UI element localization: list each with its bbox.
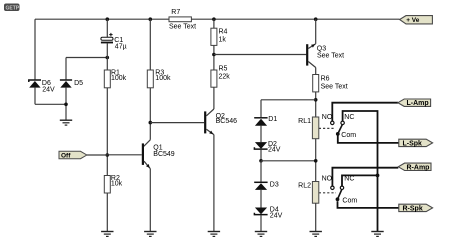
diode D5 <box>60 58 83 120</box>
svg-text:NC: NC <box>344 114 354 121</box>
svg-text:47µ: 47µ <box>115 43 127 50</box>
svg-text:R-Spk: R-Spk <box>403 205 423 212</box>
resistor R2 10k <box>104 175 122 193</box>
diode D1 <box>254 116 277 142</box>
svg-text:GETP: GETP <box>6 6 20 12</box>
node NC bus junction <box>376 174 380 178</box>
node rail-C1 <box>106 17 110 21</box>
resistor R7 See Text <box>169 9 196 31</box>
contact NO2 <box>322 175 334 189</box>
svg-text:100k: 100k <box>111 75 127 82</box>
resistor R3 100k <box>147 70 171 88</box>
svg-text:RL1: RL1 <box>298 118 311 125</box>
flag +Ve <box>400 16 433 24</box>
wire left edge down to D6 <box>34 19 36 79</box>
svg-text:See Text: See Text <box>169 23 196 30</box>
node rail-Q3 <box>314 17 318 21</box>
svg-text:NO: NO <box>322 114 333 121</box>
node D2 junction <box>259 159 263 163</box>
svg-text:22k: 22k <box>219 73 231 80</box>
wire to Q2 base <box>150 122 204 124</box>
svg-text:R7: R7 <box>171 9 180 16</box>
svg-text:R-Amp: R-Amp <box>407 164 430 171</box>
wire top +Ve rail <box>35 18 400 20</box>
diode D3 <box>254 181 279 207</box>
wire Q2 emitter to ground <box>213 135 215 232</box>
wire R5 to Q2 collector <box>213 87 215 109</box>
svg-text:D5: D5 <box>74 80 83 87</box>
svg-text:24V: 24V <box>42 86 55 93</box>
wire rail to C1 <box>106 19 108 37</box>
contact Com2 <box>336 197 358 204</box>
flag L-Spk <box>399 139 433 147</box>
transistor Q2 BC546 <box>204 109 237 135</box>
svg-text:D3: D3 <box>270 181 279 188</box>
svg-text:NO: NO <box>322 175 333 182</box>
contact NO1 wire to L-Amp <box>332 103 398 122</box>
relay RL1 armature <box>338 125 342 134</box>
diode D2 (zener 24V) <box>254 141 280 161</box>
flag L-Amp <box>398 99 431 107</box>
svg-text:RL2: RL2 <box>298 183 311 190</box>
resistor R6 See Text <box>313 75 348 92</box>
wire junction to D1 <box>261 100 316 117</box>
wire rail to Q3 emitter <box>315 19 317 44</box>
node rail-R3 <box>149 17 153 21</box>
node C1 bottom junction <box>106 56 110 60</box>
transistor Q3 See Text <box>306 44 344 75</box>
resistor R1 100k <box>104 70 126 88</box>
node Off junction <box>106 153 110 157</box>
contact NO1 <box>322 114 334 124</box>
svg-text:24V: 24V <box>268 146 281 153</box>
wire to Q3 base <box>214 54 306 56</box>
wire R2 to ground <box>106 193 108 231</box>
svg-text:Com: Com <box>342 197 357 204</box>
ground under R2 <box>101 232 113 237</box>
contact Com1 <box>336 132 356 139</box>
svg-text:BC546: BC546 <box>216 118 238 125</box>
contact NC2 wire <box>342 175 378 186</box>
relay RL2 armature <box>338 190 342 200</box>
ground NC bus <box>371 232 383 237</box>
transistor Q1 BC549 <box>107 140 175 169</box>
svg-text:D1: D1 <box>268 116 277 123</box>
contact NC2 <box>340 176 354 190</box>
flag Off <box>59 151 107 159</box>
flag R-Spk <box>399 204 433 212</box>
ground under D4 <box>255 232 267 237</box>
node D5/D6 junction <box>64 103 68 107</box>
wire D6 bottom to D5 bottom <box>35 103 66 105</box>
relay RL2 mechanical link (dashed) <box>319 192 336 194</box>
wire rail to R4 <box>213 19 215 28</box>
ground under Q1 <box>144 232 156 237</box>
svg-text:Com: Com <box>341 132 356 139</box>
relay RL1 mechanical link (dashed) <box>319 127 335 129</box>
svg-text:R5: R5 <box>219 66 228 73</box>
svg-text:See Text: See Text <box>321 84 348 91</box>
svg-text:R6: R6 <box>321 76 330 83</box>
svg-text:1k: 1k <box>219 37 227 44</box>
wire NC bus to ground <box>377 175 379 231</box>
wire C1 bottom across to D5 <box>66 57 107 59</box>
wire rail to R3 <box>149 19 151 70</box>
contact NC1 <box>341 114 355 124</box>
svg-text:BC549: BC549 <box>153 151 175 158</box>
svg-text:+ Ve: + Ve <box>406 17 420 24</box>
node RL1 bottom junction <box>314 159 318 163</box>
capacitor C1 47u <box>101 33 127 70</box>
diode D4 (zener 24V) <box>254 206 282 231</box>
wire R1 bottom to R2 <box>106 88 108 176</box>
flag R-Amp <box>398 163 431 171</box>
svg-text:R4: R4 <box>219 29 228 36</box>
contact NO2 wire to R-Amp <box>332 168 398 186</box>
wire R3 bottom to Q1 collector <box>149 88 151 140</box>
ground under RL2 <box>310 232 322 237</box>
node R6 bottom junction <box>314 98 318 102</box>
wire R4 to R5 <box>213 45 215 70</box>
resistor R4 1k <box>211 28 228 45</box>
svg-text:10k: 10k <box>111 180 123 187</box>
contact Com1 wire to L-Spk <box>338 134 399 143</box>
wire RL1 bottom to RL2 <box>315 139 317 182</box>
node rail-R4 <box>212 17 216 21</box>
svg-text:See Text: See Text <box>317 53 344 60</box>
watermark badge <box>4 4 20 12</box>
diode D6 (zener 24V) <box>29 80 55 104</box>
node R3/Q2 base junction <box>149 121 153 125</box>
svg-text:Q3: Q3 <box>317 46 326 53</box>
svg-text:NC: NC <box>344 176 354 183</box>
node Q3 base junction <box>212 53 216 57</box>
svg-text:100k: 100k <box>155 75 171 82</box>
wire RL2 to ground <box>315 203 317 231</box>
wire R6 to RL1 <box>315 92 317 117</box>
svg-text:L-Amp: L-Amp <box>407 100 429 107</box>
relay coil RL2 <box>298 182 319 204</box>
svg-text:Off: Off <box>61 152 71 159</box>
wire D2 junction to RL1 bottom <box>261 161 316 182</box>
contact NC1 wire <box>343 111 378 175</box>
ground under Q2 <box>208 232 220 237</box>
resistor R5 22k <box>211 66 230 88</box>
relay coil RL1 <box>298 117 319 139</box>
wire Q1 emitter to ground <box>149 169 151 232</box>
svg-text:L-Spk: L-Spk <box>403 140 423 147</box>
contact Com2 wire to R-Spk <box>338 201 399 208</box>
svg-text:24V: 24V <box>270 213 283 220</box>
ground under D5 <box>60 120 72 125</box>
